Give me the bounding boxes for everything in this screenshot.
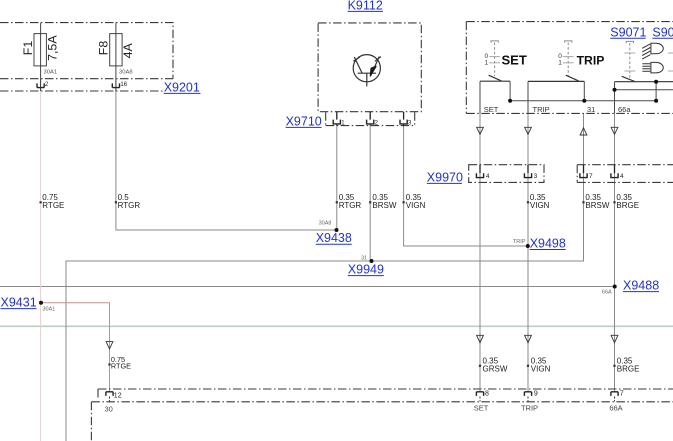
svg-text:3: 3 xyxy=(534,173,538,180)
svg-text:12: 12 xyxy=(114,393,122,400)
svg-text:BRGE: BRGE xyxy=(616,201,639,210)
svg-text:TRIP: TRIP xyxy=(533,105,550,114)
svg-text:31: 31 xyxy=(587,105,595,114)
svg-text:F8: F8 xyxy=(96,41,110,56)
svg-text:7: 7 xyxy=(589,173,593,180)
svg-text:66A: 66A xyxy=(602,289,612,295)
svg-text:VIGN: VIGN xyxy=(406,201,426,210)
svg-text:X9488: X9488 xyxy=(623,279,659,293)
svg-text:66A: 66A xyxy=(609,403,622,412)
svg-text:VIGN: VIGN xyxy=(530,201,550,210)
svg-text:X9438: X9438 xyxy=(316,231,352,245)
svg-text:4: 4 xyxy=(486,173,490,180)
svg-text:X9710: X9710 xyxy=(286,114,322,128)
svg-text:3: 3 xyxy=(408,121,412,127)
svg-text:2: 2 xyxy=(45,82,49,88)
svg-text:RTGR: RTGR xyxy=(118,201,141,210)
svg-text:RTGE: RTGE xyxy=(111,362,131,371)
svg-text:SET: SET xyxy=(484,105,499,114)
svg-text:1: 1 xyxy=(485,59,489,66)
svg-text:S9072: S9072 xyxy=(652,25,673,39)
svg-text:GRSW: GRSW xyxy=(483,365,508,374)
svg-text:X9201: X9201 xyxy=(164,80,200,94)
svg-text:7,5A: 7,5A xyxy=(46,35,60,61)
svg-text:K9112: K9112 xyxy=(348,0,383,12)
svg-text:X9949: X9949 xyxy=(348,263,384,277)
svg-text:8: 8 xyxy=(485,390,489,397)
svg-text:RTGR: RTGR xyxy=(339,201,362,210)
svg-text:66a: 66a xyxy=(618,105,631,114)
svg-text:X9970: X9970 xyxy=(427,170,463,184)
svg-text:4: 4 xyxy=(620,173,624,180)
svg-text:F1: F1 xyxy=(21,41,35,56)
svg-text:BRSW: BRSW xyxy=(585,201,609,210)
svg-text:S9071: S9071 xyxy=(610,25,646,39)
svg-text:30A8: 30A8 xyxy=(119,70,133,76)
svg-text:SET: SET xyxy=(474,403,489,412)
svg-text:TRIP: TRIP xyxy=(521,403,538,412)
svg-text:X9498: X9498 xyxy=(530,237,566,251)
svg-text:30: 30 xyxy=(105,404,113,413)
svg-text:30A1: 30A1 xyxy=(44,70,58,76)
svg-text:BRGE: BRGE xyxy=(617,365,640,374)
svg-text:1: 1 xyxy=(558,59,562,66)
svg-text:X9431: X9431 xyxy=(1,296,37,310)
svg-text:31: 31 xyxy=(361,255,367,261)
svg-text:4A: 4A xyxy=(121,43,135,59)
svg-text:VIGN: VIGN xyxy=(531,365,551,374)
svg-text:9: 9 xyxy=(534,390,538,397)
svg-text:RTGE: RTGE xyxy=(42,201,64,210)
svg-text:TRIP: TRIP xyxy=(577,53,605,67)
svg-text:30A8: 30A8 xyxy=(319,221,332,227)
svg-text:SET: SET xyxy=(502,52,527,67)
svg-text:7: 7 xyxy=(620,390,624,397)
svg-text:TRIP: TRIP xyxy=(513,239,526,245)
svg-text:30A1: 30A1 xyxy=(43,307,56,313)
svg-text:BRSW: BRSW xyxy=(372,201,396,210)
svg-text:16: 16 xyxy=(120,82,127,88)
